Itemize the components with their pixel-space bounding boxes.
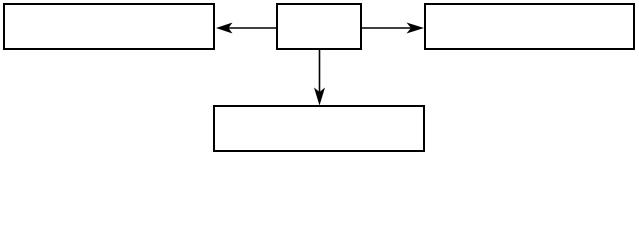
box top-right xyxy=(425,4,634,49)
box middle xyxy=(277,4,361,49)
wire right arrow shaft xyxy=(362,27,413,29)
wire down arrow shaft xyxy=(319,50,321,93)
arrowhead down xyxy=(314,88,325,106)
box top-left xyxy=(4,4,214,49)
box bottom xyxy=(214,106,424,151)
arrowhead left xyxy=(216,23,233,34)
wire left arrow shaft xyxy=(227,27,276,29)
arrowhead right xyxy=(407,23,425,34)
